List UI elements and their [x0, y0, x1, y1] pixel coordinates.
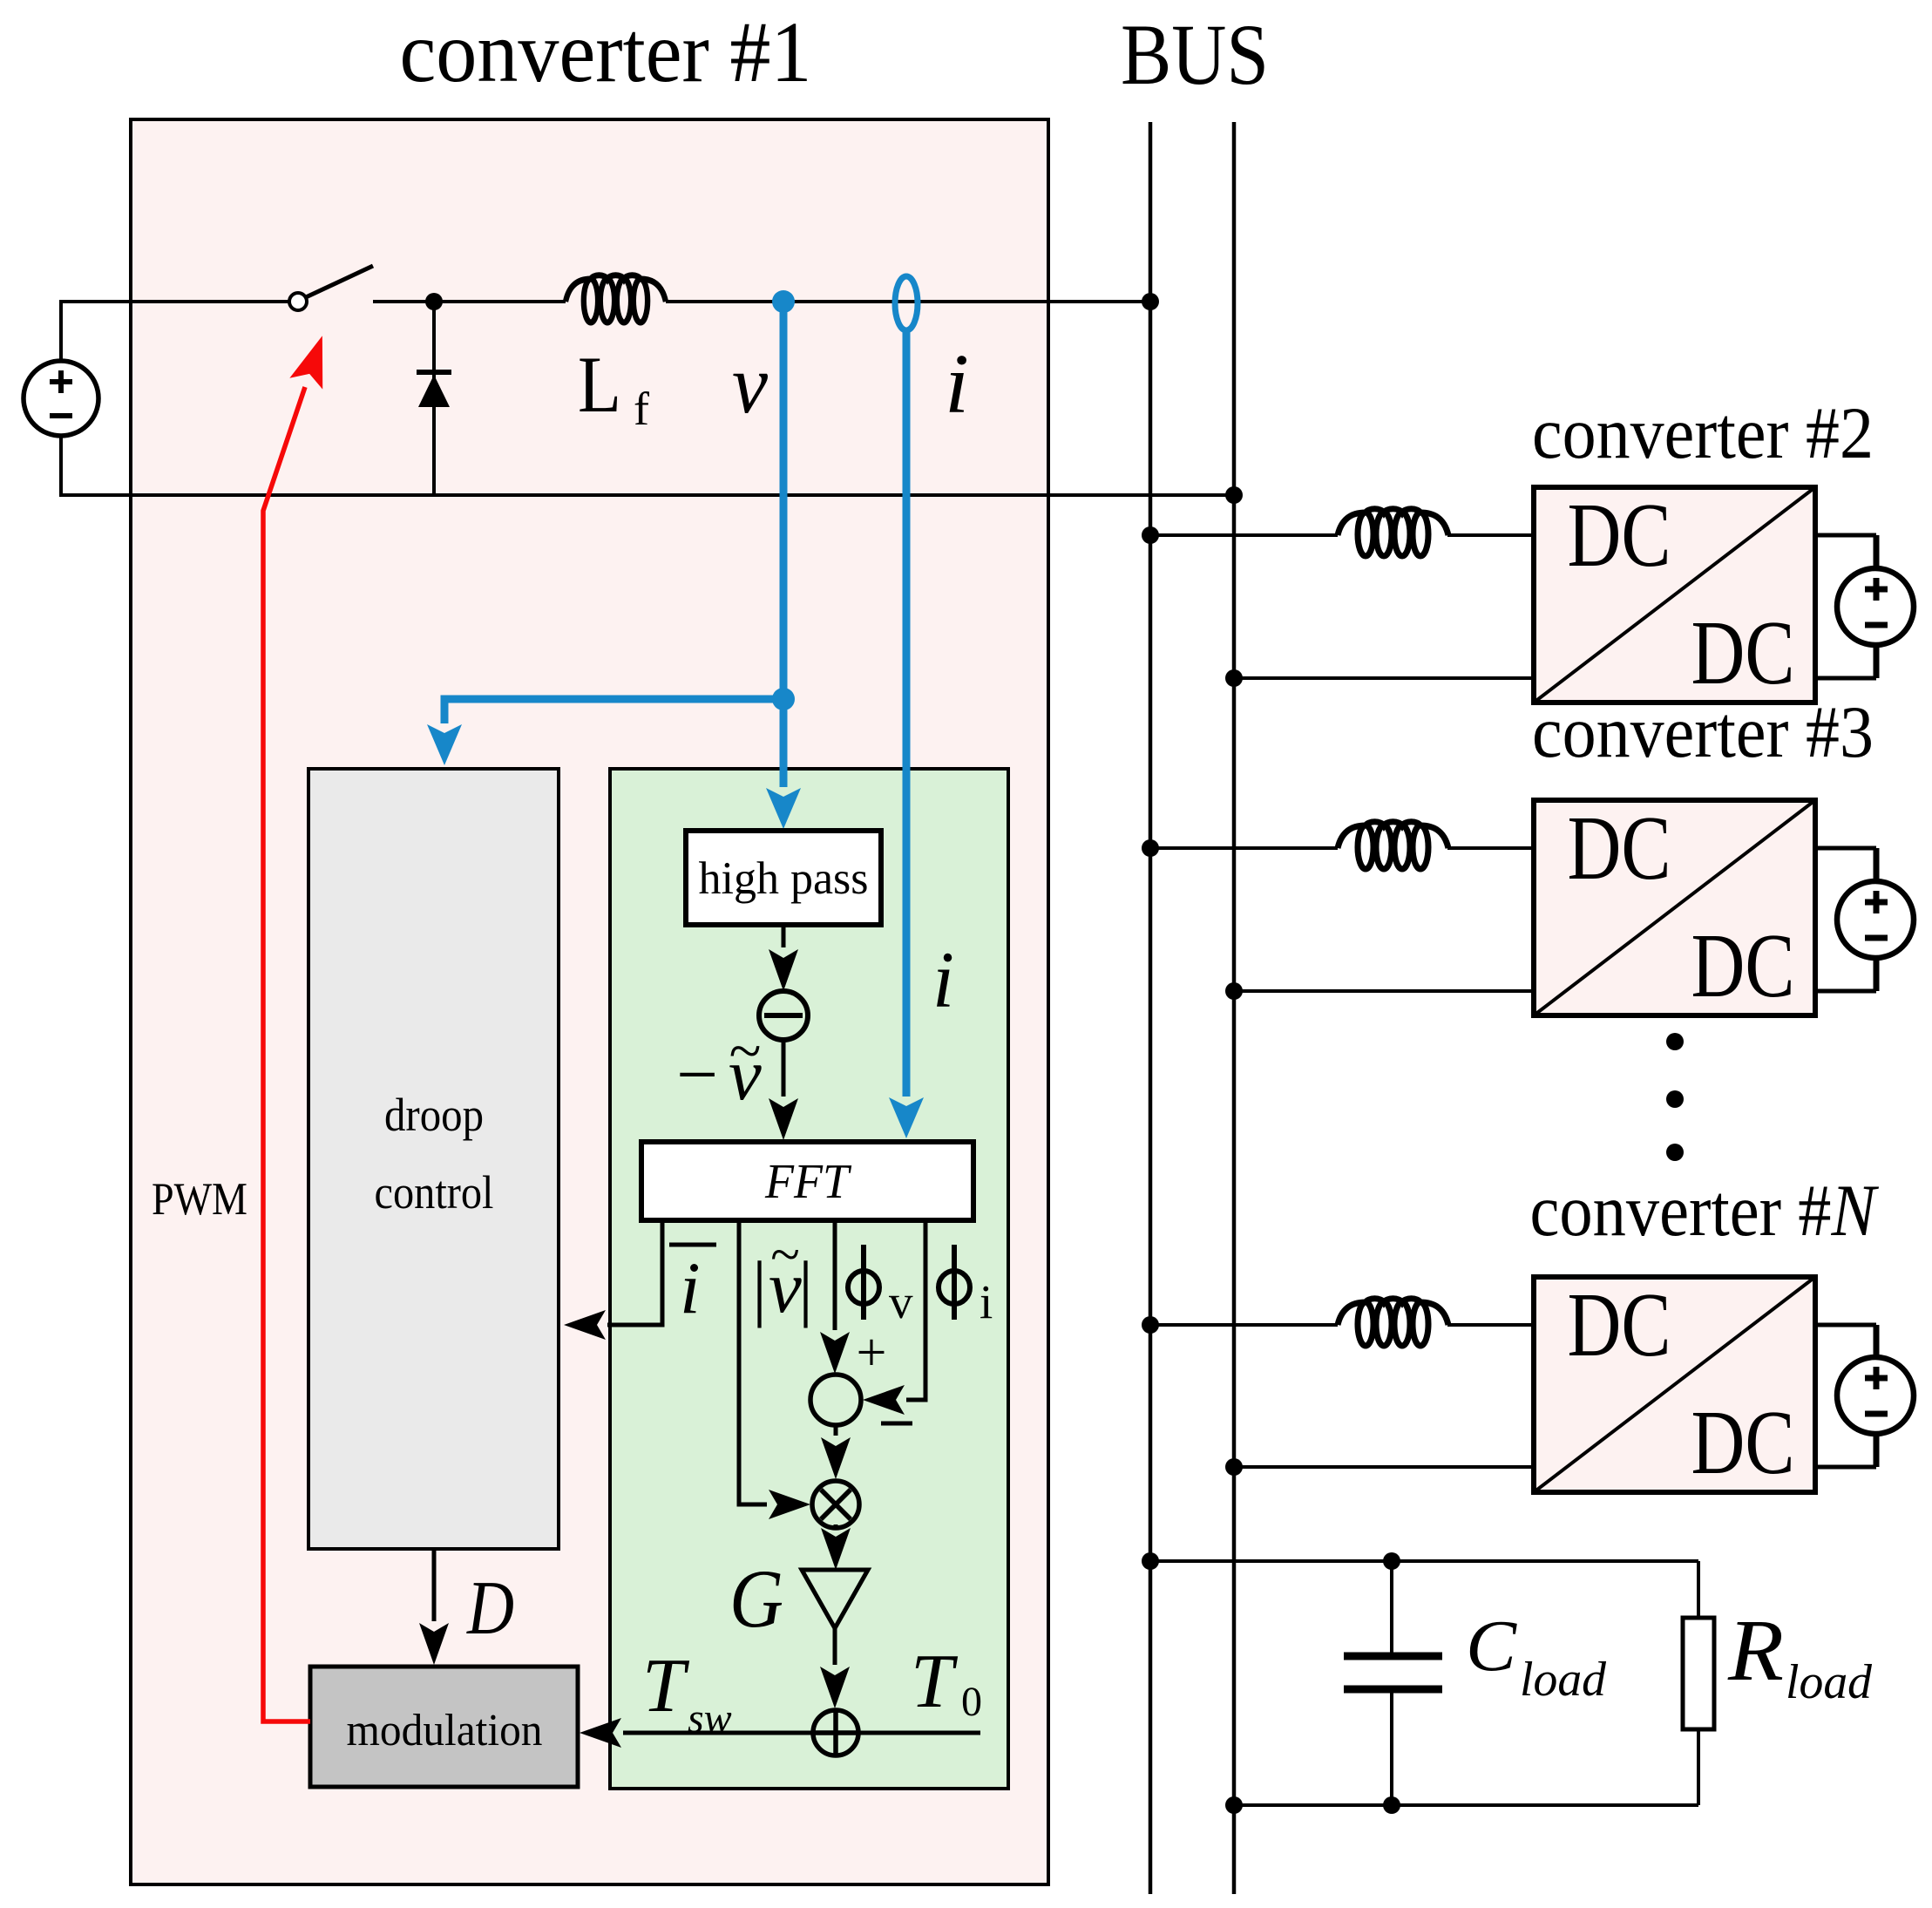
svg-text:G: G [729, 1552, 783, 1645]
svg-text:DC: DC [1568, 797, 1671, 899]
svg-text:load: load [1520, 1653, 1607, 1707]
svg-text:control: control [375, 1166, 494, 1219]
svg-text:~: ~ [729, 1017, 762, 1083]
svg-text:T: T [911, 1640, 959, 1724]
svg-text:modulation: modulation [347, 1706, 543, 1755]
svg-text:DC: DC [1568, 1273, 1671, 1375]
svg-text:sw: sw [688, 1695, 732, 1742]
svg-text:i: i [932, 935, 954, 1024]
svg-text:BUS: BUS [1121, 6, 1269, 103]
svg-text:i: i [680, 1247, 701, 1329]
svg-text:i: i [945, 337, 969, 431]
svg-text:FFT: FFT [764, 1155, 852, 1209]
svg-text:D: D [466, 1566, 514, 1651]
svg-text:high pass: high pass [699, 853, 869, 904]
svg-text:load: load [1786, 1655, 1873, 1709]
svg-text:T: T [642, 1644, 690, 1728]
svg-text:f: f [634, 383, 649, 435]
svg-text:droop: droop [384, 1089, 484, 1141]
svg-text:+: + [857, 1323, 887, 1382]
svg-text:R: R [1727, 1601, 1784, 1699]
svg-text:v: v [732, 337, 768, 431]
svg-text:|: | [798, 1246, 813, 1328]
svg-text:converter #3: converter #3 [1532, 691, 1874, 773]
svg-text:C: C [1466, 1606, 1517, 1687]
svg-text:converter #N: converter #N [1530, 1170, 1880, 1252]
svg-text:i: i [980, 1275, 993, 1328]
svg-text:DC: DC [1691, 601, 1795, 703]
svg-text:0: 0 [961, 1679, 982, 1725]
svg-text:converter #2: converter #2 [1532, 392, 1874, 474]
svg-text:L: L [578, 340, 621, 429]
svg-text:|: | [752, 1246, 767, 1328]
svg-text:DC: DC [1691, 1391, 1795, 1493]
svg-text:v: v [889, 1275, 913, 1328]
svg-text:PWM: PWM [152, 1174, 247, 1225]
svg-text:~: ~ [770, 1226, 800, 1285]
svg-text:DC: DC [1568, 484, 1671, 586]
svg-text:−: − [676, 1034, 718, 1116]
svg-text:converter #1: converter #1 [400, 3, 812, 100]
svg-text:DC: DC [1691, 914, 1795, 1016]
